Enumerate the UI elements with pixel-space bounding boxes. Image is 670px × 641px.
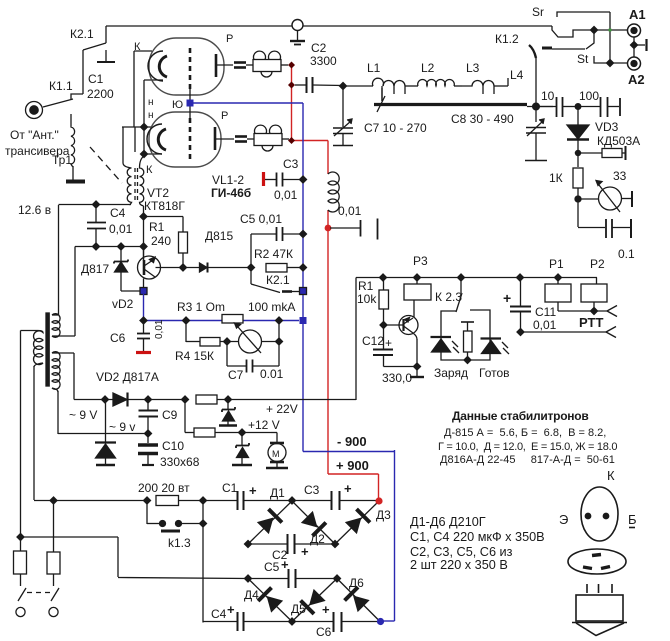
resistor +22v dropper [196, 395, 356, 404]
capacitor C4 0,01 [87, 205, 106, 247]
tube VL1 anode cap symbol [234, 63, 246, 68]
svg-text:VD2 Д817А: VD2 Д817А [96, 370, 159, 384]
resistor R1 240 [144, 217, 188, 268]
node meter right [276, 338, 283, 345]
svg-text:К1.2: К1.2 [495, 32, 519, 46]
text diode/cap data block [410, 515, 545, 572]
svg-text:2200: 2200 [87, 87, 114, 101]
node D817 top [118, 243, 125, 250]
capacitor C10 330x68 [138, 434, 158, 466]
svg-text:К 2.3: К 2.3 [435, 290, 462, 304]
svg-text:10k: 10k [357, 292, 377, 306]
svg-text:К: К [134, 41, 141, 53]
svg-text:К1.1: К1.1 [49, 79, 73, 93]
capacitor C2 PSU [288, 534, 295, 554]
svg-text:Р: Р [221, 110, 228, 122]
svg-text:КД503А: КД503А [597, 134, 640, 148]
svg-text:+: + [344, 481, 352, 496]
svg-text:10: 10 [541, 89, 555, 103]
diode VD3 KD503A [567, 107, 589, 168]
svg-text:Д5: Д5 [291, 602, 306, 616]
node R1 bottom [180, 264, 187, 271]
svg-text:Д1-Д6 Д210Г: Д1-Д6 Д210Г [410, 515, 486, 529]
wire grid blue net [190, 103, 395, 621]
zener 22v [219, 400, 237, 426]
svg-text:Заряд: Заряд [434, 366, 468, 380]
node VD3 bottom [575, 150, 580, 155]
node mains R top right [200, 497, 207, 504]
relay P3 coil [404, 278, 431, 301]
terminal stub at A1-A2 [634, 39, 647, 51]
node C4 bottom [93, 243, 100, 250]
transformer Tr1 coupling dashed line [90, 147, 122, 183]
svg-text:Д-815 А = 5.6, Б = 6.8, В =: Д-815 А = 5.6, Б = 6.8, В = 8.2, [444, 427, 606, 439]
node R1 10k top [380, 274, 387, 281]
wire diagonal A-C [292, 501, 335, 544]
svg-text:240: 240 [151, 234, 171, 248]
resistor 200 20vt [156, 496, 203, 506]
svg-text:Д6: Д6 [349, 576, 364, 590]
node P2 bottom [591, 308, 598, 315]
svg-text:н: н [148, 97, 154, 108]
svg-text:С7: С7 [228, 368, 244, 382]
tube VL2 envelope [149, 112, 221, 167]
svg-text:+: + [301, 544, 309, 559]
switch K1.2 arm [529, 45, 536, 58]
tube VL2 anode cap symbol [235, 137, 247, 142]
node VT2 base top [140, 243, 147, 250]
svg-text:С3: С3 [304, 483, 320, 497]
svg-text:+ 900: + 900 [336, 458, 369, 473]
node C5 right on blue [300, 231, 307, 238]
node meter left [224, 338, 231, 345]
inductor HV choke [328, 172, 339, 212]
diode D4 [258, 588, 284, 614]
svg-text:Д815: Д815 [205, 229, 233, 243]
relay P2 [581, 278, 607, 312]
svg-text:С6: С6 [316, 625, 332, 639]
svg-text:РТТ: РТТ [579, 315, 603, 330]
node C9 top [145, 396, 152, 403]
resistor 1K (vertical) [573, 168, 583, 227]
capacitor C3 PSU [332, 491, 340, 510]
svg-text:0,01: 0,01 [533, 318, 557, 332]
transformer Tr1 secondary bifilar winding [123, 127, 144, 261]
wire RTT line 2 with arrow [521, 327, 617, 338]
meter 33 (indicator with arrow) [578, 181, 632, 213]
node blue R3 left (blue square) [300, 317, 307, 324]
svg-text:К: К [146, 164, 153, 176]
node bridge left B [245, 541, 252, 548]
svg-text:К: К [607, 468, 615, 483]
node VD3 top [575, 104, 581, 110]
svg-text:С2: С2 [311, 41, 327, 55]
crossing mark (green) [609, 29, 612, 32]
svg-text:Д1: Д1 [270, 486, 285, 500]
node mains R top left [144, 497, 151, 504]
node P3 top [414, 274, 421, 281]
resistor charge limiter [461, 322, 474, 360]
svg-text:~ 9 V: ~ 9 V [69, 408, 97, 422]
svg-text:Данные стабилитронов: Данные стабилитронов [452, 409, 588, 423]
switch Sr bracket [557, 12, 610, 63]
svg-text:А1: А1 [629, 7, 646, 22]
diode D6 [345, 587, 371, 613]
svg-text:0,01: 0,01 [338, 204, 362, 218]
svg-text:С6: С6 [110, 331, 126, 345]
capacitor 0.1 [578, 219, 631, 238]
diode D815 [182, 263, 251, 273]
svg-text:+: + [249, 483, 257, 498]
wire PSU top rail [203, 500, 377, 502]
node bridge bottom F [289, 618, 296, 625]
svg-text:+: + [322, 602, 330, 617]
svg-text:+: + [503, 290, 511, 306]
capacitor L4 variable [525, 119, 547, 161]
svg-text:М: М [272, 449, 280, 459]
node k1.3 right [200, 520, 207, 527]
node cathode junction 1 [141, 124, 148, 131]
capacitor C3 0,01 with red plate [264, 172, 304, 187]
svg-text:А2: А2 [628, 72, 645, 87]
svg-text:0,01: 0,01 [274, 188, 298, 202]
capacitor 0,01 anode bypass [330, 219, 378, 240]
svg-text:330х68: 330х68 [160, 455, 200, 469]
wire L4 line [535, 58, 537, 122]
node bridge right E [334, 575, 341, 582]
capacitor C6 PSU [334, 612, 342, 632]
diode 9v rectifier [95, 400, 116, 466]
node bridge top A [289, 497, 296, 504]
svg-text:L3: L3 [466, 61, 480, 75]
transistor pinout bottom view [568, 549, 626, 574]
resistor R1 10k [379, 278, 389, 326]
capacitor C2 3300 [295, 77, 343, 93]
switch k1.3 (R bypass) [147, 501, 203, 623]
svg-text:Ю: Ю [172, 99, 183, 111]
svg-text:Г = 10.0, Д = 12.0, Е = 15.0: Г = 10.0, Д = 12.0, Е = 15.0, Ж = 18.0 [438, 441, 617, 453]
inductor L2 [418, 80, 462, 86]
switch mains pole 2 [49, 588, 59, 617]
svg-text:К2.1: К2.1 [70, 27, 94, 41]
node transistor base [380, 322, 387, 329]
node VT2 emitter (blue square) [140, 288, 147, 295]
connector A1 [628, 24, 641, 37]
capacitor C6 0,01 [136, 321, 151, 353]
svg-text:Р1: Р1 [549, 257, 564, 271]
svg-text:К2.1: К2.1 [266, 273, 290, 287]
LED Zaryad [431, 337, 460, 353]
wire diagonal C-red [335, 501, 379, 544]
node bridge left D [245, 575, 252, 582]
svg-text:Р2: Р2 [590, 257, 605, 271]
svg-text:Д817: Д817 [81, 262, 109, 276]
node cathode junction 2 [141, 151, 148, 158]
motor M [266, 433, 288, 469]
diode D3 [344, 509, 370, 535]
node R2 right on blue [300, 264, 307, 271]
svg-text:С1: С1 [222, 481, 238, 495]
text zener data block [438, 409, 617, 466]
node grid common (blue square) [187, 100, 194, 107]
wire diagonal E-blue [337, 579, 380, 622]
capacitor C7 variable 10-270 [333, 86, 353, 146]
svg-text:0,01: 0,01 [154, 319, 165, 339]
svg-text:R1: R1 [358, 279, 374, 293]
wire PSU bottom rail [203, 621, 378, 623]
node emitter ground [414, 363, 421, 370]
capacitor C7 0.01 (meter bypass) [227, 342, 279, 373]
node anode choke 1 output [288, 62, 295, 69]
node tank input [340, 83, 347, 90]
node K2.3 top [458, 274, 465, 281]
node meter tap [575, 196, 581, 202]
transistor pinout top view [581, 487, 635, 541]
node L4 junction [533, 103, 540, 110]
tube VL1 cathode [148, 51, 167, 81]
node C4 top [93, 201, 100, 208]
svg-text:L2: L2 [421, 61, 435, 75]
transistor socket/plug [572, 584, 627, 636]
svg-text:R2 47К: R2 47К [254, 247, 293, 261]
svg-text:+ 22V: + 22V [266, 402, 298, 416]
node C6 top [140, 317, 147, 324]
node 22v zener top [225, 396, 232, 403]
tube VL2 cathode [147, 124, 166, 154]
dashed link between poles [27, 592, 52, 594]
svg-text:0.1: 0.1 [618, 247, 635, 261]
svg-text:С8 30 - 490: С8 30 - 490 [451, 112, 514, 126]
svg-text:1К: 1К [549, 171, 563, 185]
svg-text:С5 0,01: С5 0,01 [240, 212, 282, 226]
switch K2.1 (bias) [251, 268, 300, 293]
svg-text:С3: С3 [283, 157, 299, 171]
svg-text:- 900: - 900 [337, 434, 367, 449]
wire to L4 node [527, 106, 553, 108]
relay P1 [545, 278, 571, 312]
svg-text:С10: С10 [162, 439, 184, 453]
svg-text:С1, С4 220 мкФ х 350В: С1, С4 220 мкФ х 350В [410, 530, 545, 544]
transistor K (relay driver) [384, 300, 419, 366]
svg-text:ГИ-46б: ГИ-46б [211, 186, 251, 200]
node C3 right on blue [300, 176, 307, 183]
node R4 top [183, 317, 190, 324]
inductor L1 with taps [373, 78, 419, 101]
svg-text:Б: Б [628, 512, 637, 527]
svg-text:Тр1: Тр1 [52, 153, 72, 167]
wire grid return (blue R3 row) [144, 294, 300, 321]
svg-text:Р: Р [226, 33, 233, 45]
diode D1 [256, 509, 282, 535]
wire PSU mid rail 2 [248, 578, 337, 580]
svg-text:С4: С4 [110, 206, 126, 220]
fuse 1 [14, 551, 27, 586]
transformer Tr2 secondary 12.6v winding [52, 205, 75, 337]
svg-text:VT2: VT2 [147, 186, 169, 200]
wire mains to bridge [21, 537, 249, 579]
svg-text:100: 100 [579, 89, 599, 103]
capacitor C9 [139, 400, 159, 434]
node fuse1 top [17, 534, 24, 541]
node A2 junction [607, 60, 614, 67]
wire mains left [21, 331, 148, 552]
node bridge right C [332, 541, 339, 548]
wire tank input [343, 85, 373, 87]
switch St [542, 33, 610, 63]
wire bias row [75, 246, 144, 248]
capacitor C12 330,0 [373, 325, 417, 367]
LED Gotov [481, 339, 510, 355]
svg-text:100 mkA: 100 mkA [248, 300, 295, 314]
resistor R2 47K [266, 264, 303, 273]
svg-text:+: + [227, 602, 235, 617]
transformer Tr2 secondary 9v winding [52, 352, 148, 434]
svg-text:R3 1 Om: R3 1 Om [177, 300, 225, 314]
svg-text:С12: С12 [362, 334, 384, 348]
capacitor C11 [510, 278, 531, 333]
wire diagonal F-E [292, 579, 337, 622]
svg-text:R4 15К: R4 15К [175, 349, 214, 363]
capacitor C1 grounded contact [97, 50, 115, 62]
svg-text:Готов: Готов [479, 366, 510, 380]
ground at C12/emitter [410, 367, 424, 378]
svg-text:Д4: Д4 [244, 588, 259, 602]
wire 12.6v rail [59, 204, 132, 206]
svg-text:VL1-2: VL1-2 [212, 173, 244, 187]
node fuse2 top [50, 497, 57, 504]
svg-text:С4: С4 [211, 607, 227, 621]
wire diagonal B-A [248, 501, 292, 544]
node C2 tap [288, 82, 295, 89]
node 9v rectifier top [102, 396, 109, 403]
svg-text:Д816А-Д 22-45 817-А-Д = 5: Д816А-Д 22-45 817-А-Д = 50-61 [440, 454, 615, 466]
node 12v zener top [239, 429, 246, 436]
node +22 tap [182, 396, 189, 403]
svg-text:+: + [281, 557, 289, 572]
wire PSU mid rail 1 [248, 543, 335, 545]
wire RTT line 1 with arrow [558, 306, 617, 317]
node anode choke 2 output [288, 137, 295, 144]
svg-text:н: н [148, 110, 154, 121]
node charge bottom [464, 357, 471, 364]
node P1 top [555, 274, 562, 281]
tube VL1 anode [216, 54, 233, 77]
wire control bus [356, 278, 597, 401]
tube VL1 envelope [149, 38, 224, 95]
svg-text:33: 33 [613, 169, 627, 183]
svg-text:L4: L4 [510, 68, 524, 82]
svg-text:VD3: VD3 [595, 120, 619, 134]
node C11 top [517, 274, 524, 281]
inductor anode choke 1 (ferrite bead) [246, 51, 288, 77]
node HV choke bottom (red) [325, 225, 332, 232]
svg-text:Р3: Р3 [413, 254, 428, 268]
svg-text:R1: R1 [149, 220, 165, 234]
node Sr/St junction [591, 27, 598, 34]
svg-text:2 шт 220 х 350 В: 2 шт 220 х 350 В [410, 558, 508, 572]
svg-text:~ 9 v: ~ 9 v [109, 420, 135, 434]
capacitor C1 220mkF [238, 491, 244, 510]
wire +22v rail [74, 399, 113, 401]
grounded connector on top bus [290, 20, 305, 45]
resistor +12v dropper [185, 400, 271, 438]
svg-text:С5: С5 [264, 560, 280, 574]
svg-text:+: + [385, 336, 392, 350]
connector A2 [628, 57, 641, 70]
switch Sr arm from bus [552, 26, 628, 37]
resistor R4 15K [186, 321, 239, 346]
svg-text:3300: 3300 [310, 54, 337, 68]
transformer Tr1 primary coil [66, 114, 85, 182]
resistor R3 1 Om [222, 315, 243, 324]
svg-text:С9: С9 [162, 408, 178, 422]
zener 12v [232, 433, 252, 466]
node meter right top on blue [276, 317, 283, 324]
capacitor C8 rotor (thick bar) [374, 88, 527, 112]
svg-text:200 20 вт: 200 20 вт [138, 481, 190, 495]
svg-text:+12 V: +12 V [248, 418, 280, 432]
diode VD2 D817A [113, 393, 185, 407]
tube VL1 grid (dashed) [189, 48, 192, 90]
fuse 2 [47, 501, 60, 587]
node VT2 collector top [140, 213, 147, 220]
capacitor C4 220mkF [238, 612, 244, 631]
svg-text:С1: С1 [88, 72, 104, 86]
capacitor 100 [578, 97, 620, 117]
svg-text:L1: L1 [367, 61, 381, 75]
node -900 output (blue) [377, 618, 384, 625]
svg-text:12.6 в: 12.6 в [18, 203, 51, 217]
inductor anode choke 2 (ferrite bead) [247, 125, 289, 151]
svg-text:С7 10 - 270: С7 10 - 270 [364, 121, 427, 135]
node C10 top [145, 430, 152, 437]
switch K2.3 [456, 278, 462, 313]
node grid bias junction [248, 264, 255, 271]
capacitor C5 0,01 [251, 227, 303, 268]
resistor KD503A load (horizontal) [578, 146, 626, 160]
svg-text:vD2: vD2 [112, 297, 134, 311]
svg-text:КТ818Г: КТ818Г [144, 199, 185, 213]
wire grid interconnect [189, 88, 191, 120]
switch K1.1 arm [43, 99, 73, 107]
node A1-A2 midpoint [631, 42, 638, 49]
wire diagonal D-F [248, 579, 292, 622]
svg-text:Э: Э [559, 512, 568, 527]
wire A1-A2 [633, 37, 635, 57]
svg-text:С2, С3, С5, С6 из: С2, С3, С5, С6 из [410, 545, 513, 559]
diode D5 [301, 588, 327, 614]
wire top bus [106, 25, 552, 27]
inductor L3 [462, 78, 508, 94]
node C11 bottom [517, 329, 524, 336]
transistor VT2 KT818 [138, 247, 183, 291]
wire cathode net left [122, 51, 163, 154]
transformer Tr2 core [46, 313, 49, 386]
zener D817 [114, 247, 140, 292]
svg-text:k1.3: k1.3 [168, 536, 191, 550]
svg-text:330,0: 330,0 [382, 371, 412, 385]
capacitor 10 [539, 97, 578, 117]
meter 100 mkA [235, 323, 280, 353]
svg-text:С11: С11 [535, 305, 556, 319]
svg-text:0.01: 0.01 [260, 367, 284, 381]
contact box (charge circuit) [441, 310, 490, 360]
node +900 output (red) [375, 497, 382, 504]
tube VL2 anode [215, 127, 234, 150]
switch mains pole 1 [16, 588, 26, 617]
svg-text:St: St [577, 52, 589, 66]
transformer Tr2 primary winding [21, 331, 44, 501]
